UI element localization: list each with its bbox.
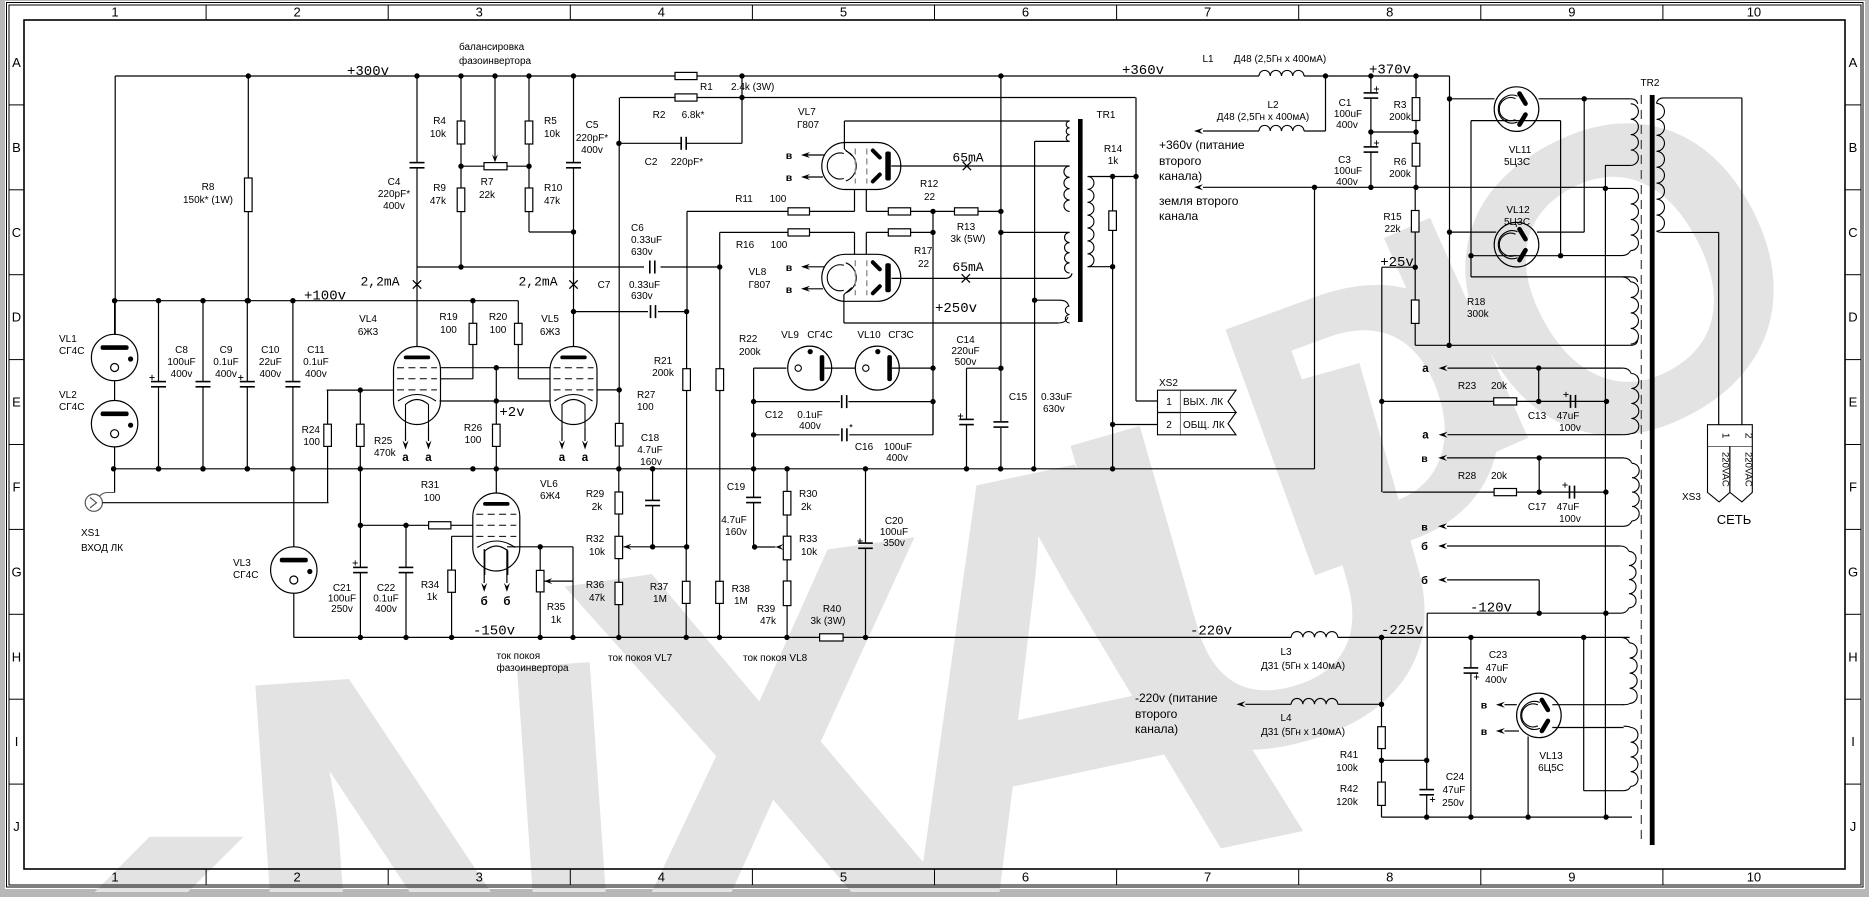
TR2 primary — [1657, 103, 1665, 231]
svg-text:22k: 22k — [479, 190, 496, 201]
svg-text:1k: 1k — [551, 615, 563, 626]
frame column tick — [1116, 5, 1118, 20]
svg-text:E: E — [1849, 395, 1858, 410]
wire C14 corner — [967, 367, 1001, 369]
wire C4 upper — [416, 76, 418, 162]
svg-text:400v: 400v — [1336, 177, 1358, 188]
svg-text:6Ж3: 6Ж3 — [358, 327, 379, 338]
frame column tick — [205, 5, 207, 20]
wire input riser — [327, 390, 329, 424]
frame column tick — [1662, 5, 1664, 20]
wire R20 to VL5 grid — [517, 345, 519, 379]
node R25 top — [358, 387, 363, 392]
plus C24 — [1430, 799, 1435, 801]
XS2 flag VYH — [1181, 390, 1237, 412]
svg-text:фазоинвертора: фазоинвертора — [497, 662, 570, 674]
wire +300v left drop to VL1 anode — [114, 76, 116, 335]
heater wires VL8 — [805, 266, 825, 268]
frame row tick — [9, 528, 24, 530]
svg-text:0.1uF: 0.1uF — [213, 357, 239, 368]
capacitor C14 — [959, 418, 974, 420]
wire VL7 g2 lead — [865, 190, 867, 212]
svg-text:5: 5 — [840, 870, 847, 885]
arrow R32 wiper — [624, 544, 632, 550]
svg-text:150k* (1W): 150k* (1W) — [183, 195, 233, 206]
svg-text:H: H — [1848, 649, 1857, 664]
svg-text:-225v: -225v — [1381, 623, 1423, 639]
svg-text:0.33uF: 0.33uF — [1041, 392, 1072, 403]
arrow R7 wiper — [492, 154, 498, 162]
wire VL9-VL10 — [825, 367, 856, 369]
wire C2 line — [619, 142, 681, 144]
arrow v2 — [1438, 523, 1447, 529]
arrow a2 — [1439, 432, 1448, 438]
svg-text:в: в — [786, 150, 793, 162]
wire VL11 plate line — [1450, 98, 1495, 100]
arrow L2 — [1194, 128, 1203, 134]
wire VL8 bottom cap — [843, 295, 845, 324]
capacitor C8 — [158, 301, 160, 382]
svg-text:D: D — [1848, 310, 1857, 325]
resistor R20 — [517, 301, 519, 324]
capacitor C24 — [1426, 760, 1428, 789]
resistor R31 — [429, 522, 451, 529]
svg-text:630v: 630v — [1043, 404, 1065, 415]
svg-text:100uF: 100uF — [1334, 166, 1362, 177]
svg-text:220uF: 220uF — [951, 346, 979, 357]
svg-text:100: 100 — [490, 325, 507, 336]
svg-text:100: 100 — [440, 325, 457, 336]
svg-text:VL1: VL1 — [59, 334, 77, 345]
svg-text:0.1uF: 0.1uF — [797, 410, 823, 421]
node C6 right — [717, 264, 722, 269]
node -120 trunkB — [1603, 611, 1608, 616]
capacitor C7 — [650, 305, 652, 318]
tube VL9 — [788, 346, 832, 390]
tube VL11 — [1494, 87, 1539, 132]
resistor R2 — [675, 94, 697, 101]
TR2 sec S6 b-winding — [1629, 551, 1636, 607]
svg-text:2k: 2k — [592, 502, 604, 513]
frame column tick — [569, 5, 571, 20]
node VL12 chord right — [1558, 253, 1563, 258]
node +25v — [1413, 265, 1418, 270]
svg-text:фазоинвертора: фазоинвертора — [459, 55, 532, 67]
svg-text:в: в — [1481, 700, 1488, 712]
node C12/C16 right — [930, 399, 935, 404]
node 0V rail junction — [245, 466, 250, 471]
wire R31 grid line — [360, 524, 428, 526]
svg-text:R26: R26 — [464, 423, 483, 434]
wire C4 lower — [416, 168, 418, 267]
svg-text:ВХОД ЛК: ВХОД ЛК — [81, 543, 123, 554]
wire VL1-VL2 — [114, 381, 116, 401]
svg-text:220pF*: 220pF* — [378, 189, 410, 200]
wire b2 corner — [1538, 580, 1540, 613]
frame row tick — [9, 359, 24, 361]
x mark right — [569, 280, 577, 288]
svg-text:СЕТЬ: СЕТЬ — [1717, 512, 1752, 527]
wire VL11-VL12 plate link — [1583, 99, 1585, 232]
wire R9 bottom — [460, 212, 462, 267]
wire VL13 plate1 — [1552, 704, 1623, 706]
wire R36 bottom — [618, 605, 620, 638]
svg-text:J: J — [1850, 819, 1857, 834]
svg-text:+300v: +300v — [347, 64, 389, 80]
node 0V rail junction — [1110, 466, 1115, 471]
wire VL7 cap line to TR1 — [844, 120, 1069, 122]
wire +25 drop — [1381, 267, 1383, 492]
svg-text:D: D — [12, 310, 21, 325]
svg-text:J: J — [13, 819, 20, 834]
resistor R22 — [719, 267, 721, 369]
svg-text:20k: 20k — [1491, 471, 1508, 482]
resistor R42 — [1378, 782, 1386, 805]
tube VL8 — [822, 254, 901, 301]
svg-text:3: 3 — [476, 870, 483, 885]
svg-text:6Ц5С: 6Ц5С — [1538, 763, 1564, 774]
capacitor C9 — [202, 301, 204, 382]
svg-text:100: 100 — [424, 493, 441, 504]
resistor R41 — [1381, 704, 1383, 726]
resistor R11 — [788, 208, 810, 215]
svg-text:0.1uF: 0.1uF — [303, 357, 329, 368]
wire -150v rail — [294, 636, 820, 638]
wire NFB down to XS2 — [1135, 177, 1137, 402]
wire R7 right — [507, 165, 529, 167]
resistor R34 — [448, 570, 456, 592]
svg-text:C21: C21 — [333, 583, 352, 594]
wire NFB corner — [1135, 98, 1137, 177]
node C19 bottom — [752, 544, 757, 549]
svg-text:R13: R13 — [957, 222, 976, 233]
connector XS2 box — [1158, 390, 1181, 435]
capacitor C15 in trunk — [993, 421, 1008, 423]
node b2 -120 — [1537, 611, 1542, 616]
wire g2 mid down — [495, 368, 497, 401]
frame row tick — [9, 104, 24, 106]
transformer TR2 core — [1650, 95, 1655, 845]
wire R17 line — [866, 231, 888, 233]
wire C7 line — [574, 311, 649, 313]
wire S1 tap trunk — [1034, 141, 1036, 468]
tube VL5 — [550, 347, 597, 425]
wire R12 line — [866, 210, 888, 212]
wire XS1 input line — [103, 502, 329, 504]
svg-text:65mA: 65mA — [952, 151, 983, 166]
resistor R8 — [245, 178, 253, 212]
node C10 top — [245, 298, 250, 303]
wire +370 corner — [1449, 76, 1451, 99]
resistor R9 — [457, 188, 465, 212]
wire R15 top — [1414, 187, 1416, 210]
svg-text:R3: R3 — [1394, 100, 1407, 111]
svg-text:СГ4С: СГ4С — [59, 402, 84, 413]
svg-text:ОБЩ. ЛК: ОБЩ. ЛК — [1183, 420, 1225, 431]
wire R29 chain top — [618, 469, 620, 492]
inductor L1 — [1259, 70, 1304, 76]
svg-text:47uF: 47uF — [1557, 502, 1580, 513]
node VL12 plate — [1447, 229, 1452, 234]
svg-text:R7: R7 — [481, 177, 494, 188]
wire -225 drop to S8 — [1583, 637, 1585, 790]
node S3 top lead — [998, 230, 1003, 235]
tube VL6 — [473, 493, 520, 571]
svg-text:C14: C14 — [956, 335, 975, 346]
svg-text:100: 100 — [770, 194, 787, 205]
svg-text:Г807: Г807 — [797, 120, 820, 131]
node R41-R42 — [1379, 758, 1384, 763]
node R28-C17 — [1537, 489, 1542, 494]
wire v1 to R28 drop — [1538, 458, 1540, 492]
svg-text:C1: C1 — [1339, 98, 1352, 109]
trunk B common — [1604, 188, 1606, 817]
resistor R19 — [472, 301, 474, 324]
node R5 top — [526, 73, 531, 78]
svg-text:L1: L1 — [1202, 54, 1214, 65]
node wiper-R21 junction — [684, 544, 689, 549]
svg-text:100uF: 100uF — [328, 594, 356, 605]
svg-text:4: 4 — [658, 5, 665, 20]
wire VL5 anode drop — [573, 267, 575, 347]
svg-text:8: 8 — [1386, 870, 1393, 885]
resistor R18 — [1414, 267, 1416, 300]
arrow b1 — [1438, 543, 1447, 549]
svg-text:47uF: 47uF — [1486, 663, 1509, 674]
svg-text:1: 1 — [1720, 433, 1731, 439]
wire L2 riser — [1325, 76, 1327, 131]
svg-text:65mA: 65mA — [952, 260, 983, 275]
wire fil box right — [1560, 121, 1562, 256]
svg-text:C23: C23 — [1489, 650, 1508, 661]
svg-text:47k: 47k — [760, 616, 777, 627]
resistor R10 — [525, 188, 533, 212]
wire L1 to +370 — [1304, 75, 1450, 77]
wire cathode corner — [540, 546, 573, 548]
node C8 top — [156, 298, 161, 303]
svg-text:R35: R35 — [547, 602, 566, 613]
XS2 pin1 wire — [1136, 400, 1158, 402]
svg-text:0.33uF: 0.33uF — [629, 280, 660, 291]
svg-text:R1: R1 — [700, 82, 713, 93]
wire VL10 right — [892, 367, 933, 369]
svg-text:3k (3W): 3k (3W) — [811, 616, 846, 627]
svg-text:R40: R40 — [823, 604, 842, 615]
wire L2 line — [1203, 130, 1259, 132]
TR1 sec bottom lead — [1088, 266, 1113, 268]
node 0V rail junction — [751, 466, 756, 471]
svg-text:100: 100 — [771, 240, 788, 251]
TR2 sec S1 upper — [1631, 104, 1639, 166]
svg-text:3k (5W): 3k (5W) — [951, 234, 986, 245]
node R10-C5 — [571, 229, 576, 234]
resistor R37 — [685, 547, 687, 582]
svg-text:C12: C12 — [765, 410, 784, 421]
wire R10 bottom to C5 — [528, 212, 530, 232]
svg-text:2: 2 — [1743, 433, 1754, 439]
x mark VL7 — [963, 162, 971, 170]
wire zemlya line — [1203, 186, 1605, 188]
tube VL3 — [271, 547, 317, 593]
wire VL3 bottom — [293, 593, 295, 637]
svg-text:Д31 (5Гн x 140мА): Д31 (5Гн x 140мА) — [1261, 661, 1345, 672]
wire b1 line — [1447, 545, 1621, 547]
node R5/R10 junction — [526, 164, 531, 169]
wire R38 bottom — [719, 603, 721, 637]
svg-text:C19: C19 — [727, 482, 746, 493]
wire VL8 g1 lead — [854, 232, 856, 254]
capacitor C22 — [405, 525, 407, 567]
svg-text:47k: 47k — [544, 196, 561, 207]
node C22 top — [403, 523, 408, 528]
tube VL7 — [822, 143, 901, 190]
svg-text:2: 2 — [294, 870, 301, 885]
node C2 left / grid drop — [616, 141, 621, 146]
svg-text:a: a — [1422, 430, 1429, 442]
node R17 out — [930, 230, 935, 235]
node VL11 plate join — [1582, 96, 1587, 101]
frame row tick — [9, 698, 24, 700]
svg-text:+25v: +25v — [1380, 255, 1414, 271]
node C7 right — [684, 309, 689, 314]
svg-text:6.8k*: 6.8k* — [682, 110, 705, 121]
node S4 tap — [1032, 298, 1037, 303]
node R6 zemlya — [1413, 185, 1418, 190]
node R4/R9/R7 junction — [458, 164, 463, 169]
wire VL11 filament chord — [1471, 120, 1561, 122]
svg-text:200k: 200k — [739, 347, 762, 358]
resistor R21 — [686, 312, 688, 369]
TR2 HV S8 — [1631, 728, 1638, 787]
wire VL13 cathode — [1527, 737, 1529, 818]
wire -120 drop — [1426, 613, 1428, 760]
wire R7 wiper drop — [494, 76, 496, 158]
svg-text:400v: 400v — [799, 421, 821, 432]
potentiometer R35 — [539, 547, 541, 571]
svg-text:400v: 400v — [1336, 120, 1358, 131]
svg-text:в: в — [786, 284, 793, 296]
svg-text:0.1uF: 0.1uF — [373, 594, 399, 605]
filament arrows VL5 — [559, 441, 565, 450]
wire VL7 top cap — [843, 121, 845, 149]
svg-text:630v: 630v — [631, 247, 653, 258]
svg-text:B: B — [12, 140, 21, 155]
wire R16 line — [720, 231, 788, 233]
node bottom C23 — [1468, 814, 1473, 819]
svg-text:канала): канала) — [1159, 169, 1202, 183]
svg-text:второго: второго — [1135, 707, 1178, 721]
wire R25 bottom — [359, 446, 361, 468]
filament arrows VL6 — [483, 549, 485, 583]
wire VL12 filament chord — [1471, 255, 1561, 257]
svg-text:20k: 20k — [1491, 381, 1508, 392]
svg-text:ВЫХ. ЛК: ВЫХ. ЛК — [1183, 397, 1223, 408]
svg-text:TR1: TR1 — [1097, 110, 1116, 121]
svg-text:L2: L2 — [1267, 100, 1279, 111]
wire R1 to R2 line — [741, 76, 743, 98]
svg-text:R27: R27 — [637, 390, 656, 401]
wire VL8 plate line — [892, 277, 1066, 279]
svg-text:канала): канала) — [1135, 722, 1178, 736]
node VL11 plate — [1447, 96, 1452, 101]
node -150/-220 rail junction — [358, 635, 363, 640]
TR2 primary bottom lead — [1657, 231, 1719, 232]
resistor R17 — [888, 229, 910, 236]
svg-text:второго: второго — [1159, 154, 1202, 168]
wire VL6 g2 line — [452, 535, 473, 537]
node C11 top — [290, 298, 295, 303]
svg-text:a: a — [1422, 363, 1429, 375]
node -150/-220 rail junction — [1581, 635, 1586, 640]
wire fil box left — [1470, 121, 1472, 277]
node C17 trunkB — [1603, 489, 1608, 494]
svg-text:R34: R34 — [421, 580, 440, 591]
wire v2 line — [1447, 525, 1624, 527]
resistor R23 — [1494, 398, 1517, 405]
svg-text:VL5: VL5 — [541, 314, 559, 325]
capacitor C4 — [410, 162, 425, 164]
svg-text:220VAC: 220VAC — [1720, 452, 1731, 487]
svg-text:R36: R36 — [586, 580, 605, 591]
wire R32-R36 — [618, 559, 620, 583]
node R3 bottom — [1413, 129, 1418, 134]
node R31 left — [358, 523, 363, 528]
node -150/-220 rail junction — [538, 635, 543, 640]
node bottom trunkB — [1603, 814, 1608, 819]
svg-text:300k: 300k — [1467, 309, 1490, 320]
resistor R27 — [615, 423, 623, 446]
tube VL10 — [855, 346, 899, 390]
wire R29-R32 — [618, 514, 620, 536]
svg-text:-150v: -150v — [473, 624, 515, 640]
capacitor C13 — [1570, 395, 1572, 408]
node L2 join — [1323, 73, 1328, 78]
svg-text:в: в — [1421, 521, 1428, 533]
TR2 primary top lead — [1657, 98, 1742, 104]
arrow R33 wiper — [776, 544, 784, 550]
svg-text:в: в — [786, 172, 793, 184]
node R8 at +100 rail — [246, 298, 251, 303]
svg-text:R8: R8 — [202, 182, 215, 193]
svg-text:C2: C2 — [645, 157, 658, 168]
wire R3-R6 — [1415, 121, 1417, 144]
tube VL1 — [91, 334, 137, 380]
svg-text:R31: R31 — [421, 480, 440, 491]
svg-text:R32: R32 — [586, 534, 605, 545]
x mark VL8 — [962, 274, 970, 282]
svg-text:C5: C5 — [586, 120, 599, 131]
svg-text:400v: 400v — [305, 369, 327, 380]
svg-text:канала: канала — [1159, 209, 1198, 223]
svg-text:22: 22 — [924, 192, 936, 203]
svg-text:100uF: 100uF — [1334, 109, 1362, 120]
svg-text:B: B — [1849, 140, 1858, 155]
node -150/-220 rail junction — [717, 635, 722, 640]
node -150/-220 rail junction — [784, 635, 789, 640]
svg-text:C18: C18 — [641, 433, 660, 444]
resistor R14 — [1112, 177, 1114, 211]
capacitor C12 — [841, 395, 843, 408]
wire v1 line — [1447, 457, 1624, 459]
tube VL12 — [1494, 222, 1539, 267]
svg-text:100v: 100v — [1559, 423, 1581, 434]
node 0V rail junction — [358, 466, 363, 471]
wire R27 bottom — [618, 446, 620, 469]
svg-text:VL3: VL3 — [233, 558, 251, 569]
svg-text:400v: 400v — [375, 604, 397, 615]
wire R8 drop — [247, 76, 249, 178]
potentiometer R33 — [783, 536, 791, 560]
